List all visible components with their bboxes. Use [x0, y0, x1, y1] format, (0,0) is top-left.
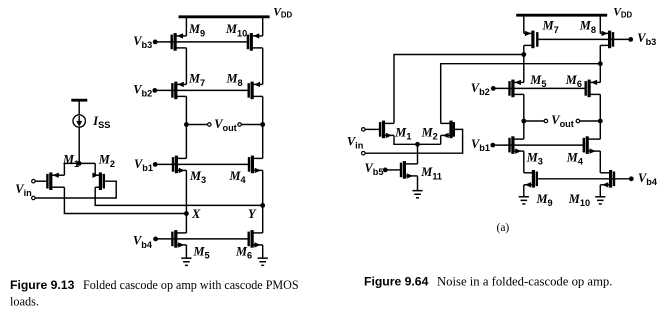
- wire tail to M2 source lead: [94, 163, 96, 175]
- transistor M5 right (PMOS): [508, 80, 524, 98]
- wire M9 source to VDD rail: [185, 17, 187, 36]
- wire power bar to current source ISS: [78, 100, 80, 115]
- wire M10 drain to M8 source: [262, 48, 264, 85]
- wire M1 drain down to node X: [64, 187, 186, 213]
- wire M11 source to ground: [417, 176, 419, 190]
- wire Vb5 to gate of M11: [385, 169, 400, 171]
- wire M7 drain to Vout node: [185, 96, 187, 124]
- wire Vb1 to gates of M3 and M4: [155, 163, 249, 165]
- wire M7 drain to folding node: [523, 45, 525, 54]
- transistor M1 (PMOS input): [46, 172, 64, 190]
- wire tail node to M1 and M2 sources: [64, 162, 95, 164]
- node Vb4 bias dot: [153, 237, 158, 242]
- transistor M7 right (PMOS): [524, 31, 539, 49]
- junction dot folding node right: [598, 61, 603, 66]
- transistor M6 (NMOS): [248, 230, 263, 248]
- svg-text:Vout: Vout: [214, 117, 237, 133]
- svg-text:Vb3: Vb3: [133, 34, 152, 50]
- node Vb3 bias dot: [153, 40, 158, 45]
- wire M5 drain to Vout (right): [523, 94, 525, 121]
- wire M6 drain to Vout (right): [599, 94, 601, 121]
- junction dot folding node left: [521, 52, 526, 57]
- wire Vb2 to gates of M7 and M8: [155, 89, 249, 91]
- wire node X to M5 drain: [185, 214, 187, 233]
- wire Vout left stub: [186, 124, 207, 126]
- wire Vb1 to gates of M3/M4 (right): [493, 144, 584, 146]
- svg-text:Noise in a folded-cascode op a: Noise in a folded-cascode op amp.: [437, 274, 612, 288]
- node Vb1 bias dot (right): [490, 143, 495, 148]
- transistor M5 (NMOS): [171, 230, 186, 248]
- wire Vin+ to gate of M1 (right): [365, 128, 379, 130]
- wire M2 drain to folding node right: [441, 64, 601, 124]
- wire Vout right stub: [242, 124, 263, 126]
- current source ISS: [73, 115, 85, 127]
- svg-text:Y: Y: [248, 207, 257, 221]
- svg-text:Vb4: Vb4: [638, 171, 658, 187]
- terminal Vin+ (upper): [32, 179, 36, 183]
- transistor M7 (PMOS): [171, 82, 186, 100]
- junction dot Vout left: [184, 122, 189, 127]
- wire M7 source to VDD rail (right): [523, 15, 525, 33]
- wire folding node to M6 source: [599, 64, 601, 83]
- wire ISS to tail node of M1/M2: [78, 127, 80, 163]
- wire M2 source to tail node (right): [440, 135, 442, 144]
- svg-text:M5: M5: [529, 73, 546, 89]
- svg-text:Figure 9.13: Figure 9.13: [10, 278, 75, 292]
- wire M1 drain to folding node left: [394, 55, 524, 124]
- transistor M3 right (NMOS): [508, 136, 524, 154]
- svg-text:Vb1: Vb1: [471, 137, 490, 153]
- svg-text:M9: M9: [188, 22, 205, 38]
- ground under M9 (right): [519, 196, 529, 205]
- wire Vin- wrap to gate of M2 (right): [365, 129, 462, 153]
- wire Vout to M4 drain (right): [599, 121, 601, 139]
- wire gates of M9/M10 to Vb4 (right): [537, 178, 632, 180]
- junction dot tail node (right): [415, 142, 420, 147]
- wire Vout right stub (right fig): [580, 120, 601, 122]
- wire folding node to M5 source: [523, 55, 525, 83]
- svg-text:loads.: loads.: [10, 295, 39, 309]
- ground under M5: [181, 257, 191, 266]
- svg-text:M7: M7: [188, 72, 205, 88]
- svg-text:M1: M1: [62, 153, 79, 169]
- svg-text:M7: M7: [542, 19, 559, 35]
- wire M6 source to ground: [262, 245, 264, 258]
- svg-text:X: X: [191, 207, 201, 221]
- wire Vout to M3 drain: [185, 125, 187, 159]
- svg-text:M3: M3: [189, 169, 206, 185]
- transistor M6 right (PMOS): [585, 80, 601, 98]
- node Vb5 bias dot: [383, 168, 388, 173]
- power rail VDD (Figure 9.13): [179, 15, 270, 18]
- svg-text:M10: M10: [568, 192, 590, 208]
- wire Vb3 to gates of M9 and M10: [155, 41, 248, 43]
- terminal Vout right: [238, 123, 242, 127]
- svg-text:M10: M10: [225, 22, 247, 38]
- transistor M9 (PMOS): [171, 33, 187, 51]
- svg-text:M2: M2: [421, 125, 438, 141]
- svg-text:Vb5: Vb5: [365, 161, 384, 177]
- svg-text:(a): (a): [497, 222, 510, 234]
- transistor M2 right (NMOS input): [441, 121, 455, 139]
- svg-text:M5: M5: [193, 244, 210, 260]
- wire M10 source to VDD rail: [262, 17, 264, 36]
- wire tail node to M11 drain: [417, 144, 419, 164]
- wire M9 source to ground (right): [523, 185, 525, 196]
- wire M3 source to node X: [185, 170, 187, 213]
- svg-text:Vb2: Vb2: [471, 81, 490, 97]
- svg-text:M3: M3: [526, 150, 543, 166]
- transistor M1 right (NMOS input): [379, 121, 394, 139]
- svg-text:M6: M6: [565, 73, 582, 89]
- svg-text:M2: M2: [98, 153, 115, 169]
- svg-text:M4: M4: [566, 150, 584, 166]
- junction dot node Y: [260, 203, 265, 208]
- wire Vb4 to gates of M5 and M6: [156, 238, 249, 240]
- terminal Vout right (right fig): [576, 119, 580, 123]
- svg-text:M4: M4: [229, 169, 247, 185]
- node Vb1 bias dot: [153, 162, 158, 167]
- junction dot Vout right (right fig): [598, 119, 603, 124]
- wire M5 source to ground: [185, 245, 187, 258]
- transistor M3 (NMOS): [172, 156, 187, 174]
- svg-text:Vin: Vin: [15, 182, 32, 198]
- transistor M2 (PMOS input): [92, 172, 105, 190]
- junction dot node X: [184, 211, 189, 216]
- svg-text:Vin: Vin: [347, 134, 364, 150]
- wire M10 source to ground (right): [599, 185, 601, 196]
- power bar above ISS: [71, 99, 87, 102]
- wire node Y to M6 drain: [262, 205, 264, 233]
- svg-text:M8: M8: [226, 72, 243, 88]
- wire M3 source to M9 drain (right): [523, 151, 525, 173]
- node Vb2 bias dot (right): [491, 86, 496, 91]
- wire M2 drain down to node Y: [95, 187, 263, 205]
- wire Vout left stub (right fig): [524, 120, 544, 122]
- node Vb3 bias dot (right): [628, 37, 633, 42]
- svg-text:M6: M6: [235, 244, 252, 260]
- svg-text:Vb2: Vb2: [133, 82, 152, 98]
- terminal Vin- (right fig): [362, 151, 366, 155]
- svg-text:Vb3: Vb3: [637, 31, 656, 47]
- ground under M6: [258, 257, 268, 266]
- terminal Vout left (right fig): [544, 119, 548, 123]
- terminal Vin+ (right fig): [362, 128, 366, 132]
- wire Vout to M4 drain: [262, 125, 264, 159]
- wire M1 source to tail node (right): [394, 135, 441, 144]
- svg-text:M8: M8: [579, 19, 596, 35]
- junction dot Vout right: [260, 122, 265, 127]
- transistor M9 right (NMOS): [524, 170, 538, 188]
- transistor M4 right (NMOS): [583, 136, 601, 154]
- node Vb2 bias dot: [152, 88, 157, 93]
- transistor M10 right (NMOS): [600, 170, 615, 188]
- svg-text:VDD: VDD: [273, 5, 292, 19]
- transistor M10 (PMOS): [247, 33, 263, 51]
- wire Vin+ to gate of M1: [35, 180, 46, 182]
- wire Vin- wrap to gate of M2: [35, 181, 116, 198]
- wire M8 drain to Vout node: [262, 96, 264, 124]
- svg-text:M1: M1: [394, 125, 411, 141]
- junction dot tail node: [77, 161, 82, 166]
- wire gates of M7/M8 to Vb3 (right): [537, 38, 630, 40]
- ground under M11: [412, 190, 422, 199]
- terminal Vin- (lower): [32, 196, 36, 200]
- svg-text:M9: M9: [536, 192, 553, 208]
- junction dot Vout left (right fig): [521, 119, 526, 124]
- svg-text:M11: M11: [420, 165, 442, 181]
- wire M4 source to node Y: [262, 170, 264, 205]
- power rail VDD (Figure 9.64): [516, 14, 607, 17]
- svg-text:ISS: ISS: [92, 114, 110, 130]
- terminal Vout left: [208, 123, 212, 127]
- ground under M10 (right): [595, 196, 605, 205]
- wire Vout to M3 drain (right): [523, 121, 525, 139]
- transistor M4 (NMOS): [248, 156, 263, 174]
- transistor M8 right (PMOS): [600, 31, 614, 49]
- transistor M8 (PMOS): [248, 82, 263, 100]
- svg-text:Vout: Vout: [551, 113, 574, 129]
- svg-text:Figure 9.64: Figure 9.64: [364, 274, 429, 288]
- transistor M11 (NMOS tail): [400, 161, 418, 179]
- wire tail to M1 source lead: [63, 163, 65, 175]
- svg-text:VDD: VDD: [613, 5, 632, 19]
- wire M9 drain to M7 source: [185, 48, 187, 85]
- wire M8 drain to folding node right: [599, 45, 601, 63]
- wire M8 source to VDD rail (right): [599, 15, 601, 33]
- wire M4 source to M10 drain (right): [599, 151, 601, 173]
- svg-text:Vb1: Vb1: [134, 157, 153, 173]
- node Vb4 bias dot (right): [629, 176, 634, 181]
- wire Vb2 to gates of M5/M6 (right): [493, 87, 585, 89]
- svg-text:Folded cascode op amp with cas: Folded cascode op amp with cascode PMOS: [83, 278, 299, 292]
- svg-text:Vb4: Vb4: [133, 234, 153, 250]
